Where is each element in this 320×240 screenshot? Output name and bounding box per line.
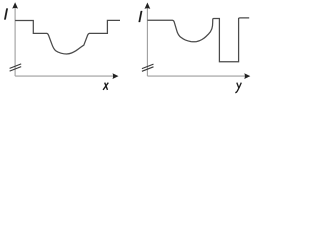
left plot: label x (italic glyph strokes) bbox=[103, 83, 108, 90]
right plot: label y (italic glyph strokes) bbox=[235, 83, 241, 93]
left plot: y-axis (I axis) bbox=[14, 8, 16, 77]
left plot: curve I(x) bbox=[15, 20, 120, 54]
left plot: x-axis bbox=[15, 75, 113, 77]
right plot: x-axis bbox=[147, 75, 245, 77]
left plot: label I (italic glyph path) bbox=[4, 8, 8, 19]
right plot: y-axis (I axis) bbox=[146, 8, 148, 77]
right plot: x-axis arrowhead bbox=[244, 73, 250, 79]
left plot: y-axis arrowhead bbox=[12, 2, 18, 8]
right plot: curve I(y) bbox=[147, 18, 249, 62]
right plot: label I (italic glyph path) bbox=[139, 11, 143, 22]
right plot: y-axis arrowhead bbox=[145, 3, 151, 9]
left plot: x-axis arrowhead bbox=[113, 73, 119, 79]
right plot: axis break (double slash) bbox=[142, 64, 154, 71]
left plot: axis break (double slash) bbox=[10, 64, 22, 71]
